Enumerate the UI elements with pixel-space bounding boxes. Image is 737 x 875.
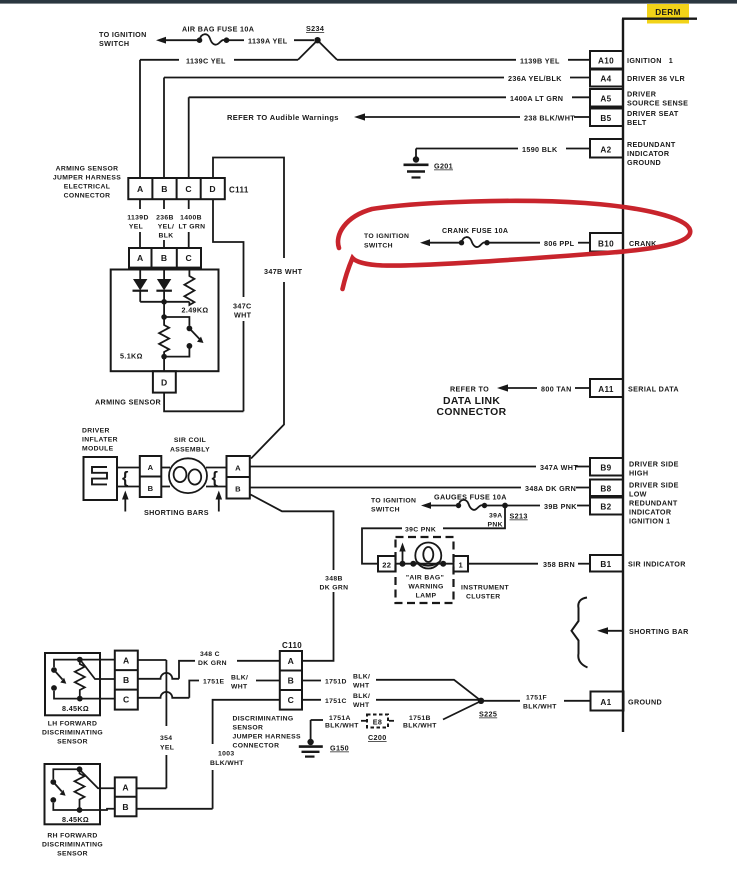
svg-text:ARMING SENSOR: ARMING SENSOR <box>56 166 119 173</box>
svg-text:LAMP: LAMP <box>416 593 437 600</box>
svg-text:B5: B5 <box>600 114 611 123</box>
svg-text:BELT: BELT <box>627 118 647 127</box>
crank fuse <box>459 240 464 245</box>
arming sensor box <box>111 270 219 372</box>
wire 1751F BLK/WHT (S225 to A1) <box>484 700 591 702</box>
svg-text:D: D <box>161 378 168 388</box>
svg-text:B: B <box>148 484 154 493</box>
pin box B5 <box>590 109 623 127</box>
switch branch <box>164 317 200 357</box>
splice S234 <box>314 37 320 43</box>
wire 806 PPL to B10 <box>490 242 591 244</box>
svg-text:B10: B10 <box>598 240 614 249</box>
node split dot <box>161 314 167 320</box>
wire 1139D YEL (C111-A to sensor A) <box>139 199 141 248</box>
svg-text:{: { <box>212 469 219 487</box>
arrow up (lamp feed) <box>402 548 404 564</box>
svg-text:SENSOR: SENSOR <box>233 725 264 732</box>
svg-text:1400A LT GRN: 1400A LT GRN <box>510 94 563 103</box>
wire LH-B with hop over 354 <box>138 673 179 679</box>
svg-text:5.1KΩ: 5.1KΩ <box>120 352 143 361</box>
svg-text:YEL: YEL <box>129 224 143 231</box>
wire 1590 BLK to A2 <box>416 148 590 150</box>
svg-text:236A YEL/BLK: 236A YEL/BLK <box>508 74 562 83</box>
wire 39C PNK <box>362 506 505 564</box>
wire S234 diagonals <box>298 40 337 60</box>
wire 358 BRN to B1 <box>468 563 590 565</box>
wire 1751C BLK/WHT (C110-C to S225) <box>302 699 481 701</box>
svg-text:1139C YEL: 1139C YEL <box>186 56 226 65</box>
svg-text:DRIVER SIDE: DRIVER SIDE <box>629 460 679 469</box>
svg-text:LH FORWARD: LH FORWARD <box>48 721 97 728</box>
wire 348A DK GRN to B8 <box>250 487 590 489</box>
svg-text:348 C: 348 C <box>200 651 220 658</box>
svg-text:B2: B2 <box>600 503 611 512</box>
svg-text:A: A <box>235 464 241 473</box>
wire 348C DK GRN (LH-B to C110-A) <box>179 661 280 679</box>
arrow shorting bar 1 <box>124 496 126 512</box>
svg-text:1139B YEL: 1139B YEL <box>520 56 560 65</box>
pin box A5 <box>590 89 623 107</box>
svg-text:DK GRN: DK GRN <box>198 660 227 667</box>
pin box B10 <box>590 233 623 252</box>
svg-text:REDUNDANT: REDUNDANT <box>627 140 676 149</box>
svg-text:C: C <box>123 695 130 705</box>
svg-text:1751F: 1751F <box>526 695 547 702</box>
svg-text:WHT: WHT <box>231 684 248 691</box>
svg-text:C: C <box>288 695 295 705</box>
svg-text:A4: A4 <box>600 75 611 84</box>
svg-text:39A: 39A <box>489 513 503 520</box>
svg-text:SWITCH: SWITCH <box>99 39 129 48</box>
svg-text:BLK/WHT: BLK/WHT <box>325 723 359 730</box>
ground G201 <box>404 149 429 178</box>
wire 1751D BLK/WHT (C110-B to S225) <box>302 680 481 701</box>
svg-text:238 BLK/WHT: 238 BLK/WHT <box>524 114 575 123</box>
svg-text:BLK/: BLK/ <box>353 693 370 700</box>
svg-text:DRIVER SEAT: DRIVER SEAT <box>627 109 679 118</box>
svg-text:358 BRN: 358 BRN <box>543 560 575 569</box>
svg-text:DRIVER: DRIVER <box>82 428 110 435</box>
svg-text:ELECTRICAL: ELECTRICAL <box>64 184 111 191</box>
RH switch <box>53 769 79 810</box>
svg-text:INDICATOR: INDICATOR <box>629 508 672 517</box>
pin box B2 <box>590 498 623 515</box>
RH connector A/B <box>115 777 137 816</box>
svg-text:SOURCE SENSE: SOURCE SENSE <box>627 99 688 108</box>
svg-text:SIR INDICATOR: SIR INDICATOR <box>628 560 686 569</box>
svg-text:AIR BAG FUSE 10A: AIR BAG FUSE 10A <box>182 25 254 34</box>
wire C111-D up and over (347B) <box>213 158 284 459</box>
svg-text:SWITCH: SWITCH <box>364 243 393 250</box>
svg-text:1590 BLK: 1590 BLK <box>522 145 558 154</box>
coil output connector A/B <box>227 456 250 499</box>
red highlight oval <box>338 201 690 289</box>
svg-text:DRIVER 36 VLR: DRIVER 36 VLR <box>627 74 686 83</box>
svg-text:{: { <box>122 469 129 487</box>
LH resistor <box>75 660 85 699</box>
svg-text:347C: 347C <box>233 302 252 311</box>
svg-text:REFER TO Audible Warnings: REFER TO Audible Warnings <box>227 113 339 122</box>
wire 1139B YEL to A10 <box>337 59 590 61</box>
svg-text:INFLATER: INFLATER <box>82 437 118 444</box>
pin box B1 <box>590 555 623 572</box>
arrow shorting bar label <box>605 630 623 632</box>
svg-text:"AIR BAG": "AIR BAG" <box>406 575 444 582</box>
svg-text:ARMING SENSOR: ARMING SENSOR <box>95 398 162 407</box>
svg-text:2.49KΩ: 2.49KΩ <box>182 306 209 315</box>
wire 1751A BLK/WHT (G150 to E8) <box>311 719 323 721</box>
connector C111 <box>128 178 225 199</box>
svg-text:1139A YEL: 1139A YEL <box>248 37 288 46</box>
svg-text:806 PPL: 806 PPL <box>544 239 575 248</box>
LH connector A/B/C <box>115 651 138 710</box>
wire 236B YEL/BLK (C111-B to sensor B) <box>163 199 165 248</box>
svg-text:A: A <box>148 463 154 472</box>
resistor 5.1K <box>159 317 169 357</box>
svg-text:SHORTING BAR: SHORTING BAR <box>629 627 689 636</box>
wire 347C WHT <box>213 199 244 411</box>
svg-text:B: B <box>288 676 295 686</box>
RH resistor <box>75 769 85 810</box>
svg-text:A2: A2 <box>600 146 611 155</box>
connector E8 dashed <box>361 720 366 722</box>
svg-text:DRIVER: DRIVER <box>627 90 657 99</box>
svg-text:B: B <box>123 675 130 685</box>
wire 1139C YEL <box>140 59 298 61</box>
svg-text:DK GRN: DK GRN <box>320 585 349 592</box>
svg-text:39C PNK: 39C PNK <box>405 527 436 534</box>
svg-text:GROUND: GROUND <box>627 158 661 167</box>
wire 39B PNK to B2 <box>505 505 590 507</box>
wire arming sensor D output <box>164 393 243 412</box>
wire 236A YEL/BLK to A4 <box>164 78 590 179</box>
svg-text:BLK/: BLK/ <box>231 675 248 682</box>
DERM highlight <box>647 4 689 24</box>
wire gauges arrow <box>428 505 456 507</box>
svg-text:TO IGNITION: TO IGNITION <box>371 498 416 505</box>
pin box B9 <box>590 458 623 476</box>
wire 347A WHT to B9 <box>250 466 590 468</box>
svg-text:B: B <box>122 802 129 812</box>
svg-text:S213: S213 <box>510 512 528 521</box>
svg-text:A: A <box>137 184 144 194</box>
svg-text:WHT: WHT <box>234 311 252 320</box>
svg-text:1400B: 1400B <box>180 215 202 222</box>
svg-text:C: C <box>186 253 193 263</box>
wire bus <box>140 301 189 303</box>
svg-text:C110: C110 <box>282 641 302 650</box>
pin box A11 <box>590 379 623 397</box>
wire 1751E BLK/WHT (LH-C to C110-B) <box>189 681 279 698</box>
svg-text:IGNITION 1: IGNITION 1 <box>629 517 670 526</box>
junction dot <box>161 299 167 305</box>
svg-text:TO IGNITION: TO IGNITION <box>99 30 147 39</box>
svg-text:TO IGNITION: TO IGNITION <box>364 233 409 240</box>
svg-text:WHT: WHT <box>353 702 370 709</box>
svg-text:CONNECTOR: CONNECTOR <box>437 407 507 418</box>
wire 1751B to S225 <box>443 702 479 720</box>
RH bottom wire to pin B <box>80 809 115 810</box>
svg-text:S234: S234 <box>306 24 324 33</box>
svg-text:INSTRUMENT: INSTRUMENT <box>461 585 510 592</box>
svg-text:C200: C200 <box>368 733 387 742</box>
svg-text:CRANK FUSE 10A: CRANK FUSE 10A <box>442 227 508 235</box>
RH diagonal to pin A <box>81 771 115 788</box>
svg-text:WHT: WHT <box>353 683 370 690</box>
air bag warning lamp <box>415 543 441 569</box>
wire RH-A to 354 YEL <box>137 787 167 789</box>
svg-text:800 TAN: 800 TAN <box>541 385 572 394</box>
svg-text:B: B <box>161 253 168 263</box>
svg-text:1751D: 1751D <box>325 679 347 686</box>
svg-text:A5: A5 <box>600 95 611 104</box>
wire 348B DK GRN down to C110 <box>251 495 334 661</box>
svg-text:1: 1 <box>459 561 464 570</box>
svg-text:CONNECTOR: CONNECTOR <box>64 193 111 200</box>
pin D box <box>153 371 176 392</box>
wire 354 YEL vertical <box>165 660 167 788</box>
svg-text:E8: E8 <box>373 718 383 727</box>
inflater connector A/B <box>140 456 162 497</box>
ground G150 <box>299 720 323 757</box>
pin box A10 <box>590 51 623 69</box>
svg-text:A11: A11 <box>598 385 614 394</box>
svg-text:MODULE: MODULE <box>82 446 114 453</box>
svg-text:SIR COIL: SIR COIL <box>174 437 206 444</box>
svg-text:BLK/WHT: BLK/WHT <box>403 723 437 730</box>
svg-text:SENSOR: SENSOR <box>57 739 88 746</box>
svg-text:YEL: YEL <box>160 745 174 752</box>
svg-text:B1: B1 <box>600 560 611 569</box>
svg-text:BLK/WHT: BLK/WHT <box>523 704 557 711</box>
svg-text:8.45KΩ: 8.45KΩ <box>62 815 89 824</box>
svg-text:YEL/: YEL/ <box>158 224 175 231</box>
wire 800 TAN to A11 with arrow <box>505 387 590 389</box>
DERM main vertical line <box>622 19 624 732</box>
wire to ignition switch with arrow <box>163 39 197 41</box>
svg-text:236B: 236B <box>156 215 174 222</box>
svg-text:DATA LINK: DATA LINK <box>443 396 500 407</box>
svg-text:REDUNDANT: REDUNDANT <box>629 499 678 508</box>
inflater element <box>92 467 107 484</box>
svg-text:B: B <box>235 485 241 494</box>
svg-text:IGNITION 1: IGNITION 1 <box>627 56 673 65</box>
wire module to connector B <box>117 486 140 488</box>
svg-text:LT GRN: LT GRN <box>179 224 206 231</box>
svg-text:REFER TO: REFER TO <box>450 385 489 394</box>
svg-text:BLK/: BLK/ <box>353 674 370 681</box>
svg-text:G201: G201 <box>434 162 453 171</box>
svg-text:GAUGES FUSE 10A: GAUGES FUSE 10A <box>434 493 507 502</box>
arming sensor connector A B C <box>129 248 201 268</box>
svg-text:1751C: 1751C <box>325 698 347 705</box>
svg-text:G150: G150 <box>330 744 349 753</box>
wire C111-A vertical <box>139 60 141 178</box>
diode D1 (under A) <box>133 268 149 302</box>
pin box 1 <box>454 556 469 572</box>
svg-text:1003: 1003 <box>218 751 235 758</box>
arrow shorting bar 2 <box>218 496 220 512</box>
wire 1139A YEL <box>229 39 314 41</box>
svg-text:CONNECTOR: CONNECTOR <box>233 743 280 750</box>
gauges fuse <box>456 503 461 508</box>
RH sensor box <box>45 764 101 824</box>
svg-text:1751E: 1751E <box>203 679 225 686</box>
coil loops <box>174 467 202 485</box>
connector C110 <box>280 651 302 710</box>
wire module to connector A <box>117 467 140 469</box>
wire 238 BLK/WHT to B5 with arrow <box>362 116 590 118</box>
svg-text:DISCRIMINATING: DISCRIMINATING <box>233 716 294 723</box>
svg-text:B8: B8 <box>600 485 611 494</box>
svg-text:S225: S225 <box>479 710 497 719</box>
LH wires to connector <box>80 660 115 699</box>
svg-text:B: B <box>161 184 168 194</box>
wire 1003 BLK/WHT <box>213 700 280 809</box>
diode D2 (under B) <box>156 268 172 302</box>
svg-text:1751B: 1751B <box>409 715 431 722</box>
wire 1400B LT GRN (C111-C to sensor C) <box>188 199 190 248</box>
svg-text:WARNING: WARNING <box>408 584 443 591</box>
svg-text:354: 354 <box>160 735 172 742</box>
svg-text:DISCRIMINATING: DISCRIMINATING <box>42 842 103 849</box>
svg-text:C: C <box>185 184 192 194</box>
svg-text:39B PNK: 39B PNK <box>544 502 577 511</box>
svg-text:SWITCH: SWITCH <box>371 507 400 514</box>
svg-text:HIGH: HIGH <box>629 469 648 478</box>
pin box A2 <box>590 139 623 158</box>
svg-text:SHORTING BARS: SHORTING BARS <box>144 508 209 517</box>
resistor (under C) <box>184 268 194 305</box>
SIR coil circle <box>169 458 207 493</box>
junction dots lamp <box>400 561 406 567</box>
wire RH-B to 1003 corner <box>137 808 213 810</box>
svg-text:CLUSTER: CLUSTER <box>466 594 501 601</box>
bottom junction dot <box>161 354 167 360</box>
svg-text:BLK: BLK <box>158 233 173 240</box>
svg-text:22: 22 <box>382 561 391 570</box>
pin box A4 <box>590 70 623 87</box>
svg-text:A1: A1 <box>600 698 611 707</box>
svg-text:BLK/WHT: BLK/WHT <box>210 760 244 767</box>
svg-text:DISCRIMINATING: DISCRIMINATING <box>42 730 103 737</box>
svg-text:348B: 348B <box>325 576 343 583</box>
svg-text:LOW: LOW <box>629 490 647 499</box>
svg-text:JUMPER HARNESS: JUMPER HARNESS <box>53 175 121 182</box>
svg-text:D: D <box>209 184 216 194</box>
svg-text:JUMPER HARNESS: JUMPER HARNESS <box>233 734 301 741</box>
pin box B8 <box>590 480 623 497</box>
wires connector to coil <box>161 468 226 487</box>
svg-text:RH FORWARD: RH FORWARD <box>47 833 97 840</box>
wire 1400A LT GRN to A5 <box>189 97 590 178</box>
splice S213 <box>502 503 508 509</box>
svg-text:347B WHT: 347B WHT <box>264 267 303 276</box>
svg-text:347A WHT: 347A WHT <box>540 463 578 472</box>
splice S225 <box>478 698 484 704</box>
wire crank arrow <box>427 242 459 244</box>
wire LH-A to 354 YEL corner <box>138 659 167 661</box>
svg-text:348A DK GRN: 348A DK GRN <box>525 484 576 493</box>
svg-text:B9: B9 <box>600 464 611 473</box>
svg-text:A: A <box>288 656 295 666</box>
pin box 22 <box>378 556 396 572</box>
wire down to split <box>163 302 165 317</box>
shorting bar brace <box>572 598 588 668</box>
wire to D pin <box>163 357 165 372</box>
svg-text:DRIVER SIDE: DRIVER SIDE <box>629 481 679 490</box>
top border bar <box>0 0 737 4</box>
svg-text:8.45KΩ: 8.45KΩ <box>62 704 89 713</box>
driver inflater module box <box>84 457 118 500</box>
svg-text:1139D: 1139D <box>127 215 148 222</box>
instrument cluster dashed box <box>396 537 454 603</box>
LH switch <box>54 660 80 699</box>
svg-text:A: A <box>123 656 130 666</box>
svg-text:A: A <box>137 253 144 263</box>
svg-text:ASSEMBLY: ASSEMBLY <box>170 447 210 454</box>
DERM top wire <box>622 18 697 20</box>
svg-text:DERM: DERM <box>655 8 681 17</box>
wire fuse to S213 <box>487 505 505 507</box>
air bag fuse F1 <box>197 37 203 43</box>
LH sensor box <box>45 653 100 715</box>
LH diagonal to pin B <box>82 662 115 680</box>
wire LH-C with hop over 354 <box>138 692 190 698</box>
svg-text:SENSOR: SENSOR <box>57 851 88 858</box>
svg-text:A10: A10 <box>598 57 614 66</box>
pin box A1 <box>591 692 624 711</box>
svg-text:C111: C111 <box>229 186 249 195</box>
svg-text:A: A <box>122 783 129 793</box>
svg-text:GROUND: GROUND <box>628 698 662 707</box>
svg-text:1751A: 1751A <box>329 715 351 722</box>
wire inside lamp box <box>396 563 454 565</box>
svg-text:INDICATOR: INDICATOR <box>627 149 670 158</box>
svg-text:SERIAL DATA: SERIAL DATA <box>628 385 679 394</box>
